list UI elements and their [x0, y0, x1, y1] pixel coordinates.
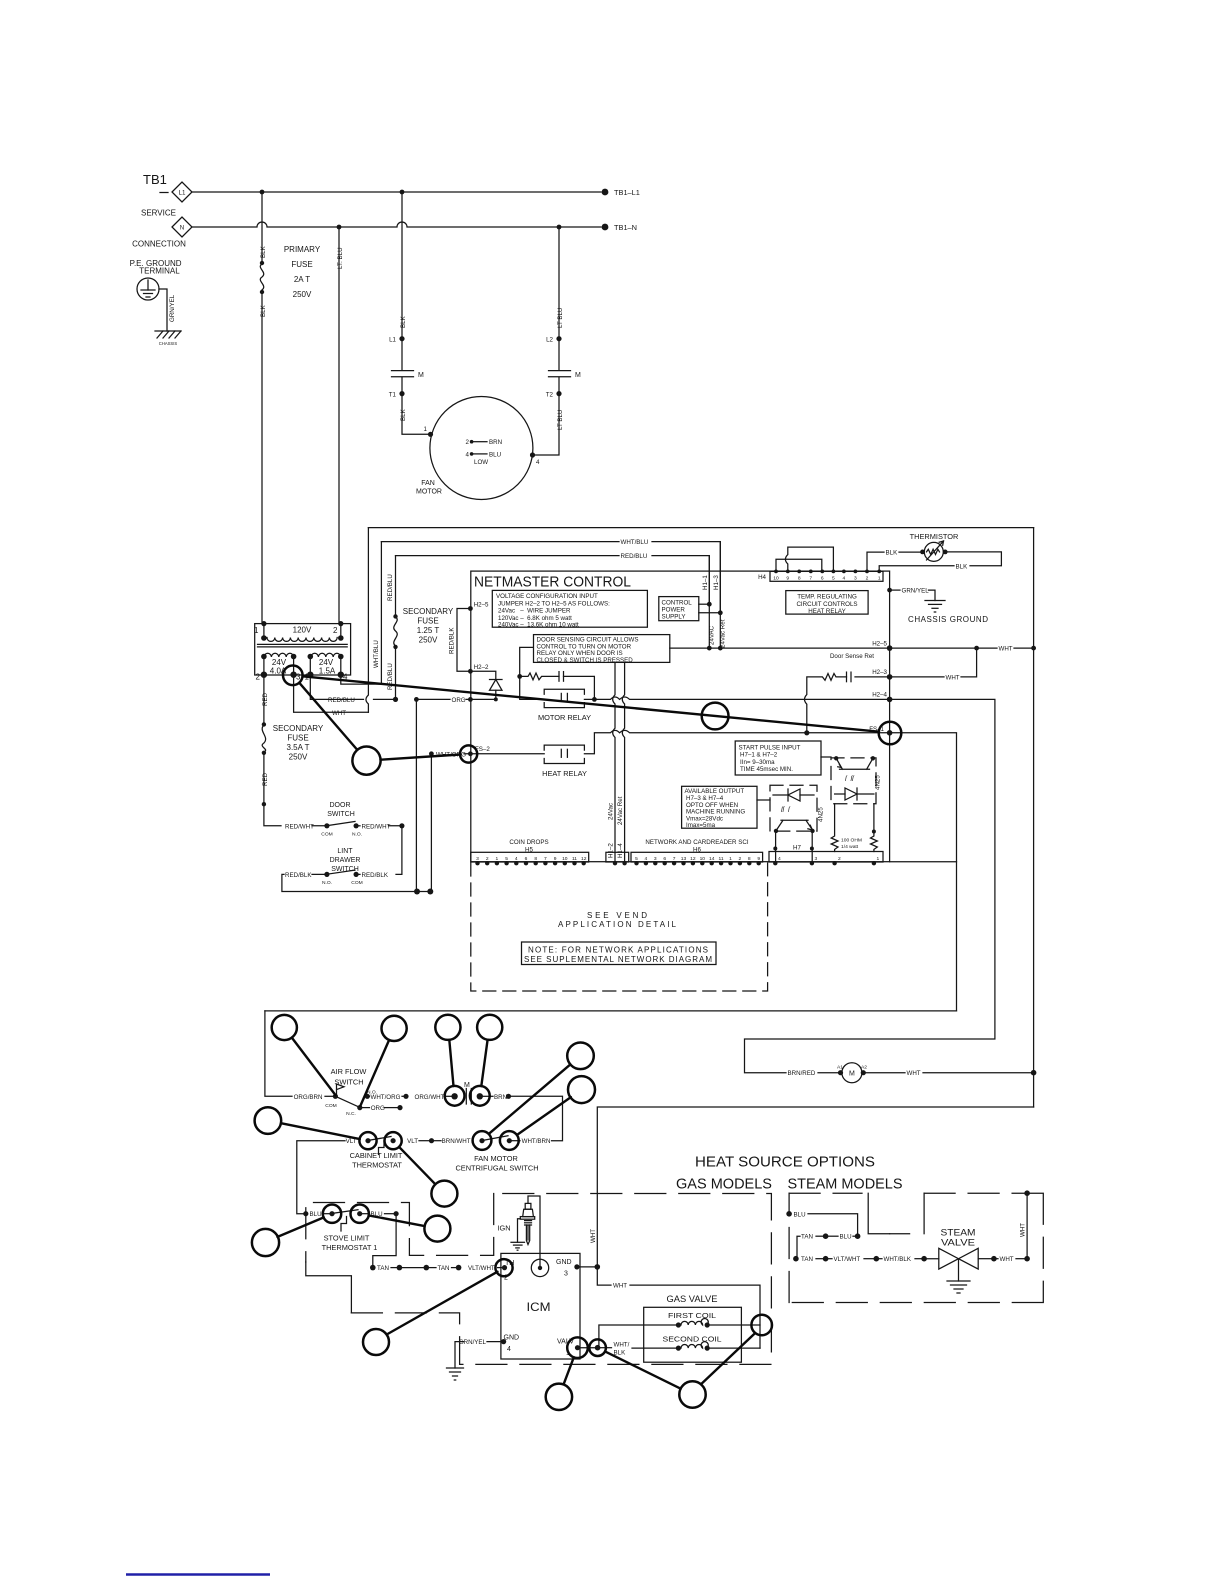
- wire WHT/ORG from N.O. to M aux contact: [367, 1095, 369, 1097]
- svg-text:11: 11: [572, 856, 577, 862]
- svg-text:POWER: POWER: [662, 606, 686, 613]
- svg-text:WHT/ORG: WHT/ORG: [371, 1094, 401, 1101]
- annotation circle c13: [323, 1205, 341, 1223]
- annotation circle B1: [352, 747, 380, 775]
- svg-text:8: 8: [798, 576, 801, 582]
- node T2: [556, 391, 561, 396]
- relay M coil A2: [861, 1070, 866, 1075]
- wire WHT from M coil to right rail: [863, 1072, 905, 1074]
- svg-text:ORG: ORG: [371, 1105, 385, 1112]
- primary fuse 2A T 250V: [260, 261, 264, 265]
- svg-text:9: 9: [554, 856, 557, 862]
- svg-text:BLU: BLU: [840, 1234, 852, 1241]
- annotation circle c18: [363, 1329, 389, 1355]
- thermistor RT1: [924, 542, 943, 561]
- annotation circle FS-2: [460, 745, 477, 762]
- svg-text:N.C.: N.C.: [346, 1111, 356, 1117]
- svg-text:HEAT RELAY: HEAT RELAY: [542, 769, 587, 778]
- svg-text:RED/WHT: RED/WHT: [285, 823, 314, 830]
- transformer T1 box: [255, 624, 351, 675]
- transformer secondary winding 24V 4.0A: [264, 653, 294, 657]
- svg-text:2: 2: [466, 439, 470, 446]
- pin H1-3 riser: [719, 542, 721, 649]
- svg-text:24Vac: 24Vac: [608, 803, 615, 820]
- air flow switch N.C. terminal: [357, 1105, 362, 1110]
- svg-text:TB1–L1: TB1–L1: [614, 188, 640, 197]
- svg-text:1: 1: [424, 426, 428, 433]
- svg-text:TEMP. REGULATING: TEMP. REGULATING: [797, 594, 857, 601]
- node TB1-L1: [602, 189, 609, 196]
- annotation circle c14: [351, 1205, 369, 1223]
- svg-text:IGN: IGN: [498, 1224, 511, 1233]
- svg-text:TB1: TB1: [143, 172, 167, 187]
- svg-text:WHT: WHT: [613, 1283, 627, 1290]
- svg-text:5: 5: [832, 576, 835, 582]
- svg-text:5: 5: [635, 856, 638, 862]
- wire BLK H4 pin2 to thermistor: [867, 552, 884, 571]
- gas models dashed boundary: [306, 1194, 494, 1263]
- svg-text:BRN/RED: BRN/RED: [788, 1070, 816, 1077]
- svg-text:TAN: TAN: [438, 1265, 450, 1272]
- network note box: [522, 942, 717, 965]
- ground symbol for steam valve: [947, 1280, 970, 1282]
- wire WHT from transformer terminal 3 up to top rail: [294, 675, 369, 713]
- svg-text:250V: 250V: [289, 753, 308, 762]
- svg-text:9: 9: [757, 856, 760, 862]
- wire LT BLU from N bus down to fan motor contact L2: [558, 227, 560, 338]
- ICM module box: [501, 1253, 580, 1359]
- svg-text:H4: H4: [758, 574, 766, 581]
- svg-text:CHASSIS: CHASSIS: [159, 341, 178, 346]
- svg-text:HEAT SOURCE OPTIONS: HEAT SOURCE OPTIONS: [695, 1155, 875, 1171]
- svg-text:H1–2: H1–2: [608, 843, 615, 858]
- steam circuit BLU terminal: [786, 1211, 792, 1217]
- annotation line c3 to M aux left: [449, 1040, 453, 1086]
- door sensing note box: [534, 635, 670, 663]
- svg-text:1/4 watt: 1/4 watt: [841, 844, 859, 850]
- fan motor body: [430, 397, 533, 500]
- vend application dashed box: [471, 863, 768, 991]
- wire BLK from L1 bus down to primary fuse: [261, 192, 263, 262]
- svg-text:H1–4: H1–4: [617, 843, 624, 858]
- wire first coil left to VALV junction: [599, 1325, 679, 1348]
- svg-text:TIME 45msec MIN.: TIME 45msec MIN.: [740, 766, 793, 773]
- svg-text:24Vac Ret: 24Vac Ret: [720, 619, 727, 648]
- wire RED/BLU from transformer terminal 1: [310, 675, 363, 700]
- wire to fan motor terminal 4: [533, 394, 559, 455]
- wire WHT/ORG to FS-2: [429, 751, 434, 756]
- svg-text:CLOSED & SWITCH IS PRESSED: CLOSED & SWITCH IS PRESSED: [537, 657, 634, 664]
- annotation circle c15: [424, 1216, 450, 1242]
- wire BRN down to centrifugal switch: [509, 1096, 563, 1140]
- opto-coupler U2 4N25 (upper): [831, 758, 876, 804]
- annotation circle on transformer terminal 3: [283, 666, 303, 686]
- svg-text:THERMOSTAT: THERMOSTAT: [352, 1161, 402, 1170]
- svg-text:3: 3: [564, 1270, 568, 1277]
- wire WHT/BLU from transformer terminal 4: [341, 542, 382, 685]
- svg-text:11: 11: [719, 856, 724, 862]
- svg-text:240Vac – 13.6K ohm 10 watt: 240Vac – 13.6K ohm 10 watt: [498, 621, 579, 628]
- svg-text:2: 2: [866, 576, 869, 582]
- svg-text:10: 10: [700, 856, 706, 862]
- gas valve box: [644, 1307, 742, 1362]
- svg-text:M: M: [418, 372, 424, 379]
- header H7 box: [769, 852, 883, 863]
- svg-text:1: 1: [878, 576, 881, 582]
- svg-text:L2: L2: [546, 337, 553, 344]
- svg-text:WHT: WHT: [590, 1229, 597, 1243]
- annotation line T3 to B1: [299, 683, 357, 750]
- svg-text:12: 12: [690, 856, 696, 862]
- svg-text:M: M: [575, 372, 581, 379]
- annotation circle c11: [500, 1131, 519, 1150]
- svg-text:10: 10: [562, 856, 568, 862]
- svg-text:H2–4: H2–4: [872, 691, 887, 698]
- svg-text:RED/BLU: RED/BLU: [328, 697, 355, 704]
- node L2 motor contact: [556, 336, 561, 341]
- wire first coil right to WHT riser: [707, 1324, 760, 1326]
- svg-text:4: 4: [515, 856, 518, 862]
- svg-text:NETMASTER CONTROL: NETMASTER CONTROL: [474, 574, 631, 591]
- annotation circle c10: [473, 1131, 492, 1150]
- svg-text:ſ ſſ: ſ ſſ: [845, 776, 855, 783]
- svg-text:APPLICATION DETAIL: APPLICATION DETAIL: [558, 920, 677, 929]
- svg-text:SERVICE: SERVICE: [141, 209, 176, 218]
- start pulse note box: [735, 741, 821, 775]
- svg-text:ICM: ICM: [527, 1300, 551, 1314]
- wires opto U3 to header H7 pins 4,3: [775, 831, 777, 862]
- svg-text:12: 12: [581, 856, 587, 862]
- svg-text:4: 4: [778, 856, 781, 862]
- air flow switch flag: [337, 1084, 345, 1096]
- svg-text:COIN DROPS: COIN DROPS: [509, 839, 548, 846]
- svg-text:STEAM MODELS: STEAM MODELS: [788, 1177, 903, 1193]
- svg-text:SUPPLY: SUPPLY: [662, 613, 686, 620]
- svg-text:3.5A T: 3.5A T: [287, 743, 310, 752]
- svg-text:2A T: 2A T: [294, 275, 310, 284]
- svg-text:100 OHM: 100 OHM: [841, 838, 862, 844]
- svg-text:4: 4: [645, 856, 648, 862]
- svg-text:FUSE: FUSE: [287, 734, 308, 743]
- annotation circle c9: [385, 1132, 402, 1149]
- svg-text:WHT: WHT: [999, 646, 1013, 653]
- annotation circle c5: [567, 1043, 594, 1070]
- secondary fuse 3.5A T: [262, 722, 266, 726]
- terminal L1 diamond: [172, 182, 192, 202]
- junction on N bus: [337, 225, 342, 230]
- svg-text:LOW: LOW: [474, 459, 488, 466]
- wire from door sensing box down to motor relay: [520, 647, 545, 699]
- junction on N bus: [557, 225, 562, 230]
- relay M coil: [842, 1063, 862, 1083]
- air flow switch blade COM-NC: [337, 1097, 359, 1107]
- svg-text:T1: T1: [389, 392, 397, 399]
- wire ORG stub from N.C.: [360, 1107, 370, 1109]
- svg-text:MOTOR: MOTOR: [416, 489, 442, 496]
- wire loop left leg to air flow switch: [265, 1011, 292, 1096]
- svg-text:GND: GND: [556, 1259, 572, 1266]
- svg-text:BRN/WHT: BRN/WHT: [442, 1138, 471, 1145]
- header H1 mini box: [606, 852, 629, 862]
- wire BLK from L1 bus down to fan motor contact L1: [401, 192, 403, 338]
- svg-text:COM: COM: [325, 1103, 336, 1109]
- svg-text:WHT: WHT: [332, 710, 346, 717]
- jumper H4 pin10 to pin6: [776, 559, 822, 571]
- svg-text:BLK: BLK: [260, 304, 267, 317]
- svg-text:BRN: BRN: [489, 439, 502, 446]
- svg-text:DRAWER: DRAWER: [330, 857, 361, 864]
- svg-text:Door Sense Ret: Door Sense Ret: [830, 653, 874, 660]
- svg-text:24Vac – WIRE JUMPER: 24Vac – WIRE JUMPER: [498, 608, 571, 615]
- svg-text:TERMINAL: TERMINAL: [139, 267, 180, 276]
- svg-text:CONTROL: CONTROL: [662, 599, 693, 606]
- annotation circle c21: [589, 1339, 606, 1356]
- annotation circle c1: [272, 1015, 297, 1040]
- svg-text:7: 7: [673, 856, 676, 862]
- annotation circle c23: [751, 1315, 772, 1336]
- svg-text:L1: L1: [179, 190, 186, 197]
- pin H1-1 riser: [708, 556, 710, 649]
- svg-text:24VAC: 24VAC: [709, 625, 716, 645]
- svg-text:RED/BLU: RED/BLU: [621, 553, 648, 560]
- svg-text:5: 5: [505, 856, 508, 862]
- svg-text:4: 4: [536, 459, 540, 466]
- svg-text:Imax=5ma: Imax=5ma: [686, 822, 716, 829]
- svg-text:M: M: [464, 1082, 470, 1089]
- svg-text:GAS VALVE: GAS VALVE: [667, 1294, 718, 1304]
- junction on L1 bus: [400, 190, 405, 195]
- ICM terminal TH 2: [502, 1265, 507, 1270]
- svg-text:RED/BLK: RED/BLK: [362, 872, 389, 879]
- annotation line c2 to air flow NC: [360, 1040, 389, 1106]
- node T1: [399, 391, 404, 396]
- svg-text:LT BLU: LT BLU: [557, 308, 564, 328]
- annotation line c22 to c23: [701, 1333, 755, 1384]
- lint drawer switch RED/BLK right: [356, 873, 360, 875]
- svg-text:1.25 T: 1.25 T: [417, 626, 440, 635]
- svg-text:THERMOSTAT 1: THERMOSTAT 1: [322, 1243, 378, 1252]
- wire TAN row to ICM terminal TH 2: [370, 1265, 376, 1271]
- wire H1-2 riser from header to relays: [613, 662, 615, 861]
- svg-text:TAN: TAN: [377, 1265, 389, 1272]
- annotation circle c4: [477, 1015, 502, 1040]
- svg-text:CIRCUIT CONTROLS: CIRCUIT CONTROLS: [796, 601, 857, 608]
- door switch RED/WHT right: [356, 825, 360, 827]
- svg-text:WHT/: WHT/: [614, 1342, 630, 1349]
- svg-text:1: 1: [496, 856, 499, 862]
- air flow switch N.O. terminal: [365, 1094, 370, 1099]
- svg-text:VOLTAGE CONFIGURATION INPUT: VOLTAGE CONFIGURATION INPUT: [496, 593, 598, 600]
- svg-text:120V: 120V: [293, 626, 312, 635]
- svg-text:4: 4: [843, 576, 846, 582]
- jumper wire RED/BLK from H2-5 to H2-2: [457, 609, 471, 672]
- transformer primary terminal 2: [338, 621, 343, 626]
- wire WHT from steam valve to border: [978, 1258, 992, 1260]
- door switch blade: [328, 822, 355, 826]
- annotation circle c16: [252, 1229, 279, 1256]
- svg-text:H2–5: H2–5: [474, 601, 489, 608]
- svg-text:FAN MOTOR: FAN MOTOR: [474, 1154, 518, 1163]
- wire right rail elbow to ICM WHT riser: [597, 1107, 1033, 1267]
- svg-text:2: 2: [256, 673, 261, 682]
- annotation circle c19: [567, 1337, 588, 1358]
- svg-text:RED/BLU: RED/BLU: [387, 574, 394, 601]
- node TB1-N: [602, 224, 609, 231]
- relay K1 MOTOR RELAY: [544, 689, 584, 694]
- relay K2 HEAT RELAY: [544, 745, 584, 750]
- page footer blue line: [126, 1573, 270, 1575]
- wire VALV1 to WHT/BLK junction: [578, 1347, 598, 1349]
- wire door sense ret from door box to right rail: [670, 647, 997, 649]
- svg-text:6: 6: [821, 576, 824, 582]
- annotation circle on M aux right: [470, 1086, 490, 1106]
- wire BLU down to TAN row: [373, 1214, 396, 1268]
- svg-text:1: 1: [729, 856, 732, 862]
- annotation circle c7: [255, 1107, 282, 1134]
- svg-text:IIn= 9–30ma: IIn= 9–30ma: [740, 759, 775, 766]
- svg-text:LINT: LINT: [337, 848, 353, 855]
- svg-text:NOTE: FOR NETWORK APPLICATI: NOTE: FOR NETWORK APPLICATIONS: [528, 946, 708, 955]
- wire RED/BLU horizontal to H1-1: [396, 555, 620, 557]
- transformer primary winding: [267, 638, 337, 642]
- available output note box: [682, 786, 757, 828]
- resistors 100 OHM 1/4 watt to header H7 pins 2,1: [831, 804, 838, 852]
- ground symbol for GND4: [447, 1367, 464, 1369]
- svg-text:ſſ ſ: ſſ ſ: [781, 807, 791, 814]
- annotation circle c12: [431, 1181, 457, 1207]
- wire BLK H4 pin1 to thermistor return: [879, 566, 954, 572]
- svg-text:WHT: WHT: [1020, 1223, 1027, 1237]
- annotation circle FS-1: [879, 722, 902, 745]
- annotation line B1 to FS-2: [381, 755, 461, 760]
- svg-text:WHT: WHT: [946, 674, 960, 681]
- transformer secondary terminal 3: [290, 672, 296, 678]
- diode CR1: [471, 671, 496, 679]
- igniter spark plug symbol: [518, 1203, 535, 1244]
- svg-text:1.5A: 1.5A: [319, 667, 336, 676]
- annotation line c4 to M aux right: [481, 1040, 487, 1087]
- svg-text:8: 8: [534, 856, 537, 862]
- svg-text:BLK: BLK: [886, 550, 899, 557]
- control power supply box: [659, 597, 699, 621]
- svg-text:3: 3: [654, 856, 657, 862]
- voltage configuration note box: [492, 590, 647, 627]
- lint drawer switch blade: [328, 870, 355, 874]
- wire GRN/YEL from GND4 to ground: [487, 1341, 504, 1343]
- annotation circle c8: [359, 1132, 376, 1149]
- svg-text:A2: A2: [861, 1065, 867, 1071]
- svg-text:BRN: BRN: [494, 1094, 507, 1101]
- svg-text:2: 2: [486, 856, 489, 862]
- svg-text:4: 4: [507, 1346, 511, 1353]
- svg-text:14: 14: [709, 856, 715, 862]
- annotation line c1 to air flow COM: [292, 1038, 336, 1095]
- wire RED down to door switch: [262, 802, 266, 806]
- svg-text:H2–3: H2–3: [872, 669, 887, 676]
- node L1 motor contact: [399, 336, 404, 341]
- wire GND3 to WHT junction: [577, 1266, 597, 1268]
- annotation line c19 to c20: [564, 1357, 574, 1383]
- transformer secondary terminal 4: [338, 672, 344, 678]
- annotation line c9 to c12: [399, 1147, 435, 1184]
- annotation line c6 to WHT/BRN: [517, 1097, 571, 1135]
- steam TAN-VLT/WHT-WHT/BLK row: [793, 1256, 799, 1262]
- svg-text:10: 10: [773, 576, 779, 582]
- wire from PE terminal to chassis: [159, 289, 167, 331]
- wire RED/BLU riser through secondary fuse 1.25T: [395, 648, 397, 700]
- svg-text:PRIMARY: PRIMARY: [284, 245, 321, 254]
- annotation circle c20: [546, 1384, 572, 1410]
- svg-text:BLU: BLU: [489, 451, 501, 458]
- wire GRN/YEL to chassis ground: [887, 588, 892, 593]
- svg-text:SEE VEND: SEE VEND: [587, 911, 647, 920]
- svg-text:ORG/BRN: ORG/BRN: [294, 1094, 323, 1101]
- wire loop top (heat circuit return): [265, 1010, 957, 1012]
- svg-text:FIRST COIL: FIRST COIL: [668, 1311, 716, 1320]
- svg-text:WHT/BLU: WHT/BLU: [373, 640, 380, 668]
- svg-text:4: 4: [466, 451, 470, 458]
- wire WHT right rail down: [1033, 528, 1035, 1107]
- svg-text:START PULSE INPUT: START PULSE INPUT: [739, 744, 801, 751]
- svg-text:HEAT RELAY: HEAT RELAY: [808, 608, 845, 615]
- header H4 box: [770, 571, 883, 581]
- header H4 pins 10..1: [773, 570, 881, 582]
- chassis ground symbol (earth): [925, 600, 945, 602]
- svg-text:6: 6: [663, 856, 666, 862]
- wire from lint switch to control returns: [282, 874, 430, 891]
- lint drawer switch RED/BLK left: [312, 873, 327, 875]
- wire L1 bus: [192, 191, 601, 193]
- annotation circle c17: [495, 1259, 512, 1276]
- svg-text:H1–3: H1–3: [713, 575, 720, 590]
- wire WHT top rail across page: [368, 527, 1033, 529]
- contactor M contact (left): [401, 341, 403, 370]
- svg-text:FAN: FAN: [421, 480, 435, 487]
- svg-text:COM: COM: [321, 832, 332, 838]
- svg-text:JUMPER H2–2 TO H2–5 AS FOLLOWS: JUMPER H2–2 TO H2–5 AS FOLLOWS:: [498, 600, 610, 607]
- svg-text:THERMISTOR: THERMISTOR: [910, 532, 959, 541]
- svg-text:FUSE: FUSE: [291, 260, 312, 269]
- svg-text:SECONDARY: SECONDARY: [403, 607, 454, 616]
- svg-text:CABINET LIMIT: CABINET LIMIT: [350, 1151, 403, 1160]
- wire from FS-1 to H7 rail: [890, 733, 957, 1011]
- svg-text:VLT: VLT: [407, 1138, 418, 1145]
- terminal N diamond: [172, 217, 192, 237]
- wire WHT/BLU horizontal to H1-3: [381, 541, 619, 543]
- svg-text:WHT/BRN: WHT/BRN: [522, 1138, 551, 1145]
- svg-text:STOVE LIMIT: STOVE LIMIT: [324, 1234, 370, 1243]
- centrifugal switch blade: [484, 1136, 509, 1141]
- temp regulating note box: [786, 591, 868, 615]
- svg-text:GAS MODELS: GAS MODELS: [676, 1177, 772, 1193]
- stove limit thermostat: [303, 1211, 308, 1216]
- opto-coupler U3 4N25 (lower): [770, 785, 817, 831]
- svg-text:CONNECTION: CONNECTION: [132, 240, 186, 249]
- svg-text:2: 2: [333, 626, 338, 635]
- svg-text:4N25: 4N25: [875, 775, 882, 790]
- svg-text:MOTOR RELAY: MOTOR RELAY: [538, 713, 591, 722]
- svg-text:RED: RED: [262, 692, 269, 706]
- chassis ground symbol: [155, 330, 181, 332]
- svg-text:LT. BLU: LT. BLU: [337, 247, 344, 269]
- svg-text:WHT: WHT: [1000, 1256, 1014, 1263]
- svg-text:1: 1: [254, 626, 259, 635]
- svg-text:DOOR: DOOR: [330, 802, 351, 809]
- svg-text:6: 6: [525, 856, 528, 862]
- annotation circle on diagonal: [702, 703, 729, 730]
- snubber resistor + capacitor across motor relay: [520, 673, 559, 680]
- transformer secondary terminal 1: [307, 672, 313, 678]
